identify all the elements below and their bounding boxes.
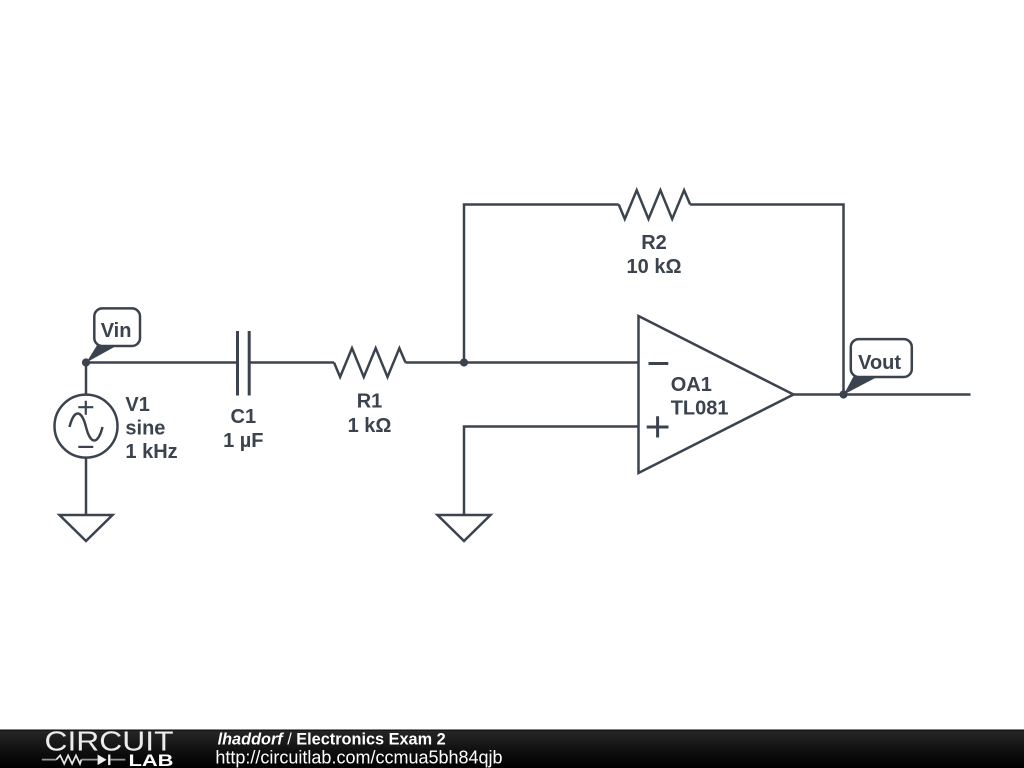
svg-text:R2: R2 (641, 232, 667, 254)
svg-text:TL081: TL081 (671, 397, 729, 419)
svg-text:Vout: Vout (858, 352, 901, 374)
svg-text:OA1: OA1 (671, 374, 712, 396)
svg-text:Vin: Vin (101, 320, 132, 342)
svg-text:1 kΩ: 1 kΩ (348, 415, 392, 437)
svg-text:lhaddorf / Electronics Exam 2: lhaddorf / Electronics Exam 2 (218, 730, 446, 748)
svg-text:sine: sine (125, 418, 165, 440)
svg-text:1 µF: 1 µF (223, 430, 263, 452)
svg-text:http://circuitlab.com/ccmua5bh: http://circuitlab.com/ccmua5bh84qjb (215, 748, 502, 768)
svg-text:10 kΩ: 10 kΩ (627, 256, 682, 278)
svg-text:1 kHz: 1 kHz (125, 441, 177, 463)
svg-text:R1: R1 (357, 391, 383, 413)
svg-text:V1: V1 (125, 394, 149, 416)
svg-text:C1: C1 (231, 406, 257, 428)
svg-text:LAB: LAB (129, 751, 174, 768)
